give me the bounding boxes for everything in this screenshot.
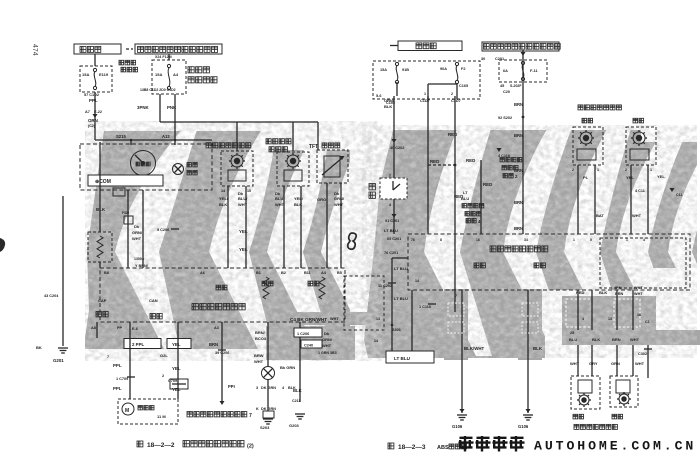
svg-text:G106: G106 xyxy=(452,424,463,429)
svg-text:C302: C302 xyxy=(638,352,647,356)
svg-text:CAN: CAN xyxy=(149,298,158,303)
svg-text:BLK: BLK xyxy=(293,388,302,393)
wire red2 xyxy=(454,96,456,312)
svg-text:S215: S215 xyxy=(116,134,126,139)
svg-text:WHT: WHT xyxy=(322,343,332,348)
svg-text:YEL: YEL xyxy=(657,174,665,179)
motor box xyxy=(118,399,178,424)
svg-text:2: 2 xyxy=(451,92,453,96)
right diagram watermark gray mass xyxy=(364,130,697,358)
EBCM sub box xyxy=(600,238,686,288)
cluster feed stubs xyxy=(130,140,132,145)
wire xyxy=(300,186,302,268)
wire to S203 xyxy=(267,380,269,411)
svg-text:BRN: BRN xyxy=(612,337,621,342)
svg-text:PPI: PPI xyxy=(228,384,235,389)
gray strip right labels xyxy=(562,330,700,345)
svg-text:B2: B2 xyxy=(281,271,286,275)
label 车轮轮速传感器 bottom xyxy=(574,424,617,429)
svg-text:8: 8 xyxy=(440,238,442,242)
diode box xyxy=(88,232,112,262)
svg-text:F-11: F-11 xyxy=(530,69,538,73)
svg-text:13: 13 xyxy=(376,317,380,321)
label 松油器连接器端子4 xyxy=(462,204,484,208)
svg-text:CAP: CAP xyxy=(98,298,107,303)
svg-text:PL: PL xyxy=(583,175,589,180)
svg-text:WHT: WHT xyxy=(275,202,285,207)
svg-text:C4 BK GRN/WHT: C4 BK GRN/WHT xyxy=(290,317,327,322)
svg-text:GRN/: GRN/ xyxy=(322,337,333,342)
svg-text:15: 15 xyxy=(247,189,251,193)
svg-text:1 GRN 3B3: 1 GRN 3B3 xyxy=(318,351,337,355)
svg-text:BLK: BLK xyxy=(294,202,302,207)
caption right xyxy=(388,443,394,449)
svg-text:DK GRN: DK GRN xyxy=(261,386,276,390)
svg-text:BRN: BRN xyxy=(514,226,523,231)
svg-text:WHT: WHT xyxy=(632,213,642,218)
svg-text:B11: B11 xyxy=(304,271,311,275)
wire ebcm left2 xyxy=(411,290,413,351)
indicator lamp xyxy=(173,164,184,175)
wheel sensor LF xyxy=(573,127,603,165)
svg-text:A7: A7 xyxy=(85,110,90,114)
svg-text:34: 34 xyxy=(524,238,528,242)
connector sq xyxy=(124,216,133,224)
svg-text:1300-r: 1300-r xyxy=(134,257,145,261)
svg-text:LT BLU: LT BLU xyxy=(394,266,408,271)
svg-text:GRO: GRO xyxy=(317,197,326,202)
ground wire left xyxy=(62,196,64,346)
svg-text:TFT: TFT xyxy=(309,144,318,150)
svg-text:BLK: BLK xyxy=(592,337,600,342)
svg-text:YEL/: YEL/ xyxy=(219,196,229,201)
svg-text:WHT: WHT xyxy=(132,236,142,241)
svg-text:Dk: Dk xyxy=(324,331,330,336)
svg-text:BLK/WHT: BLK/WHT xyxy=(464,346,485,351)
svg-text:3PNK: 3PNK xyxy=(137,105,150,110)
lamp right col xyxy=(267,322,269,366)
svg-text:WHT: WHT xyxy=(630,337,640,342)
svg-text:BRN/: BRN/ xyxy=(255,330,266,335)
run/start box right xyxy=(482,42,559,51)
svg-text:1 C709: 1 C709 xyxy=(116,377,128,381)
label 机油压力连接器端子2 xyxy=(500,158,522,162)
svg-text:4 C11: 4 C11 xyxy=(635,189,645,193)
wire xyxy=(99,262,101,268)
svg-text:RED: RED xyxy=(483,182,492,187)
white chevron cutouts left xyxy=(115,126,386,351)
wire xyxy=(159,94,161,122)
svg-text:C11: C11 xyxy=(676,193,682,197)
gray block bottom-right of left diagram xyxy=(266,326,355,360)
wire xyxy=(94,54,96,66)
watermark 汽车之家 xyxy=(459,436,525,452)
fuse 15A xyxy=(395,62,398,65)
small box below cluster xyxy=(113,188,125,196)
label 车轮转速传感器 top xyxy=(578,105,621,110)
instrument cluster box xyxy=(80,144,212,190)
left bottom strip white label PPL xyxy=(124,339,161,349)
svg-text:Bk GRN: Bk GRN xyxy=(280,365,295,370)
svg-text:1: 1 xyxy=(597,168,599,172)
wire PPL col xyxy=(129,322,131,399)
svg-text:B5: B5 xyxy=(337,271,342,275)
svg-text:C1D7: C1D7 xyxy=(451,99,461,103)
EBCM label xyxy=(490,246,548,252)
svg-text:GRY: GRY xyxy=(589,361,598,366)
svg-text:C165: C165 xyxy=(459,84,468,88)
svg-text:LT BLU: LT BLU xyxy=(394,296,408,301)
wire BRN col xyxy=(221,322,223,401)
wire xyxy=(127,190,129,268)
label 输出转速传感器 xyxy=(266,139,291,144)
ground G203 xyxy=(295,413,305,415)
caption left xyxy=(137,441,143,447)
svg-text:BK: BK xyxy=(36,345,42,350)
wire red1 xyxy=(427,96,429,234)
svg-text:LT BLU: LT BLU xyxy=(384,228,398,233)
label 变速器倒档 xyxy=(119,60,136,65)
ground G106 a xyxy=(457,414,467,416)
connector boxes col2 xyxy=(522,303,538,316)
svg-text:G201: G201 xyxy=(53,358,64,363)
wire xyxy=(245,186,247,268)
svg-text:16: 16 xyxy=(637,313,641,317)
rear sensor LB xyxy=(571,376,600,409)
svg-text:76: 76 xyxy=(411,238,415,242)
svg-text:1: 1 xyxy=(424,92,426,96)
svg-text:B1: B1 xyxy=(256,271,261,275)
wire YEL col xyxy=(177,322,179,399)
label 左前 xyxy=(582,118,593,123)
wire xyxy=(326,183,328,268)
speedometer dial xyxy=(131,151,156,176)
resistors inside ECU xyxy=(263,277,269,299)
svg-text:YEL/: YEL/ xyxy=(294,196,304,201)
svg-text:WHT: WHT xyxy=(635,361,645,366)
svg-text:C211: C211 xyxy=(292,399,300,403)
svg-text:PPL: PPL xyxy=(113,363,122,368)
svg-text:2: 2 xyxy=(389,174,391,178)
TCU ECU dashed box xyxy=(100,268,345,322)
svg-text:1 C110: 1 C110 xyxy=(419,305,431,309)
svg-text:WHT: WHT xyxy=(238,202,248,207)
label 搭铁 2 xyxy=(534,263,545,268)
svg-text:5 C206: 5 C206 xyxy=(157,228,169,232)
svg-text:G2L: G2L xyxy=(160,353,168,358)
svg-text:RED: RED xyxy=(466,158,475,163)
fuse 90A xyxy=(455,62,458,65)
svg-text:C2: C2 xyxy=(645,320,649,324)
svg-text:25: 25 xyxy=(570,331,574,335)
fuse block box right xyxy=(373,61,480,99)
svg-text:A6: A6 xyxy=(200,271,205,275)
bus wire y140 xyxy=(95,139,212,141)
svg-text:BRN: BRN xyxy=(514,200,523,205)
svg-text:YEL: YEL xyxy=(626,175,634,180)
bus wire y122 xyxy=(160,121,318,123)
svg-text:5: 5 xyxy=(590,238,592,242)
ground G106 b xyxy=(523,414,533,416)
svg-text:5-6: 5-6 xyxy=(376,94,382,98)
wire lf2 xyxy=(594,165,596,234)
battery box 电源 xyxy=(390,45,398,47)
svg-text:3: 3 xyxy=(256,386,258,390)
svg-text:ORN: ORN xyxy=(88,118,98,123)
left diagram watermark gray mass xyxy=(85,131,350,349)
svg-text:K: K xyxy=(256,407,259,411)
wire through switch xyxy=(393,96,395,178)
resistor box small xyxy=(170,379,188,389)
svg-text:1: 1 xyxy=(650,168,652,172)
fuse box E119 xyxy=(80,66,112,92)
svg-text:G203: G203 xyxy=(289,423,300,428)
gray block right sensors xyxy=(562,296,656,330)
label 变速器电控单元 xyxy=(192,304,245,310)
svg-text:S301: S301 xyxy=(392,328,401,332)
svg-text:WHT: WHT xyxy=(254,359,264,364)
svg-text:BLK: BLK xyxy=(96,207,106,212)
svg-text:GRN: GRN xyxy=(611,361,620,366)
svg-text:14: 14 xyxy=(415,279,419,283)
svg-text:1: 1 xyxy=(573,238,575,242)
label 右后 xyxy=(612,414,623,419)
svg-text:1 C206: 1 C206 xyxy=(297,332,309,336)
svg-text:PNK: PNK xyxy=(167,105,177,110)
output speed sensor xyxy=(277,152,309,186)
svg-text:LT BLU: LT BLU xyxy=(394,356,411,361)
wire fuse A4 feed xyxy=(168,54,170,60)
fuse F-11 box xyxy=(499,60,547,82)
svg-text:Y BRN/: Y BRN/ xyxy=(135,264,149,268)
svg-text:F322: F322 xyxy=(122,211,129,215)
svg-text:YEL: YEL xyxy=(172,366,181,371)
label 输入转速传感器 xyxy=(206,143,251,148)
svg-text:E-22: E-22 xyxy=(94,110,102,114)
wheel sensor RF xyxy=(626,127,656,165)
svg-text:30: 30 xyxy=(481,57,485,61)
gray strip C4 left xyxy=(287,312,380,325)
svg-text:11 C202: 11 C202 xyxy=(378,284,392,288)
svg-text:IPN: IPN xyxy=(615,286,622,290)
right col2 wire xyxy=(299,322,301,402)
label 左后 xyxy=(573,414,584,419)
信号 labels xyxy=(216,285,227,290)
wire rf2 xyxy=(647,165,649,234)
wire rf1 xyxy=(630,165,632,234)
wire BLK from S215 xyxy=(99,142,101,232)
svg-text:PPL: PPL xyxy=(89,98,98,103)
svg-text:15A: 15A xyxy=(82,72,89,77)
svg-text:40 C202: 40 C202 xyxy=(390,146,404,150)
label 仪表板编号线盒 xyxy=(188,67,209,73)
svg-text:A12: A12 xyxy=(162,134,170,139)
wire ebcm left xyxy=(392,257,408,259)
svg-text:18—2—3: 18—2—3 xyxy=(398,444,426,451)
svg-text:BCO3: BCO3 xyxy=(255,336,267,341)
margin mark near right diagram xyxy=(348,233,356,249)
wire A8 col xyxy=(96,322,98,338)
svg-text:18—2—2: 18—2—2 xyxy=(147,442,175,449)
wires EBCM to connector block xyxy=(577,290,579,330)
svg-text:YEL: YEL xyxy=(172,387,181,392)
strip white label YEL xyxy=(167,339,191,349)
svg-text:G106: G106 xyxy=(518,424,529,429)
svg-text:E119: E119 xyxy=(99,72,109,77)
wire xyxy=(174,94,176,140)
fuse box A4 xyxy=(152,60,186,94)
svg-text:90A: 90A xyxy=(440,67,447,71)
wire lf1 xyxy=(577,165,579,234)
scan mottling over masses xyxy=(85,121,697,361)
run/start fuse box label xyxy=(135,44,222,54)
svg-text:474: 474 xyxy=(31,44,38,56)
svg-text:C240: C240 xyxy=(304,344,313,348)
svg-text:(C2): (C2) xyxy=(88,124,96,128)
svg-text:BAT: BAT xyxy=(596,213,604,218)
svg-text:S-202F: S-202F xyxy=(510,84,522,88)
wire xyxy=(94,92,96,140)
svg-text:57 C1D2: 57 C1D2 xyxy=(84,93,99,97)
svg-text:BLK: BLK xyxy=(599,290,607,295)
svg-text:X24 F12M: X24 F12M xyxy=(155,55,172,59)
svg-text:7: 7 xyxy=(455,294,457,298)
EBCM box xyxy=(408,234,690,290)
svg-text:LT: LT xyxy=(463,190,468,195)
label 至插头端子7 xyxy=(187,412,247,417)
gray connector columns below EBCM xyxy=(444,289,468,360)
svg-text:A3: A3 xyxy=(214,326,219,330)
dashed connector box right of left ECU xyxy=(344,276,384,330)
svg-text:BLU/: BLU/ xyxy=(238,196,248,201)
svg-text:Dk: Dk xyxy=(134,224,140,229)
svg-text:RED: RED xyxy=(430,159,439,164)
connector boxes col1 xyxy=(448,303,464,316)
right sensor connector boxes xyxy=(566,299,592,327)
input speed sensor xyxy=(221,151,253,186)
label 档位指示 xyxy=(187,163,197,167)
svg-text:BLU: BLU xyxy=(461,196,469,201)
svg-text:BRN: BRN xyxy=(514,133,523,138)
svg-text:2: 2 xyxy=(572,168,574,172)
svg-text:91 C201: 91 C201 xyxy=(385,219,399,223)
wire G106 a xyxy=(461,290,463,413)
svg-text:7: 7 xyxy=(107,355,109,359)
svg-text:GRN/: GRN/ xyxy=(334,196,345,201)
svg-text:4: 4 xyxy=(643,238,645,242)
svg-text:2: 2 xyxy=(625,168,627,172)
rear sensor RB xyxy=(610,376,638,407)
TFT sensor thermistor xyxy=(317,150,348,183)
horizontal red jog xyxy=(428,164,455,166)
wire xyxy=(340,183,342,268)
svg-text:YEL: YEL xyxy=(239,247,248,252)
label 搭铁 1 xyxy=(474,263,485,268)
svg-text:E-6: E-6 xyxy=(132,327,138,331)
wire BRN main xyxy=(522,50,524,234)
brake switch box xyxy=(369,184,375,190)
svg-text:2 PPL: 2 PPL xyxy=(132,342,145,347)
wire G106 b xyxy=(527,290,529,413)
svg-text:14: 14 xyxy=(374,339,378,343)
wire red3 xyxy=(480,160,482,234)
svg-text:PPL: PPL xyxy=(113,386,122,391)
left margin ink blob xyxy=(0,238,5,252)
svg-text:PP: PP xyxy=(117,326,123,330)
svg-text:DK GRN: DK GRN xyxy=(261,407,276,411)
svg-text:B8: B8 xyxy=(104,271,109,275)
svg-text:BLK: BLK xyxy=(219,202,227,207)
svg-text:WHT: WHT xyxy=(330,317,339,321)
svg-text:45: 45 xyxy=(500,84,504,88)
svg-text:13B8 C1D2 2D0 C1D2: 13B8 C1D2 2D0 C1D2 xyxy=(140,88,176,92)
svg-text:S203: S203 xyxy=(260,425,270,430)
power box 常电源 xyxy=(74,44,121,54)
svg-text:WHT: WHT xyxy=(634,292,643,296)
svg-text:GRN/: GRN/ xyxy=(132,230,143,235)
svg-text:A8: A8 xyxy=(91,326,96,330)
svg-text:4: 4 xyxy=(582,317,584,321)
svg-text:AUTOHOME.COM.CN: AUTOHOME.COM.CN xyxy=(534,439,696,454)
svg-text:BRW: BRW xyxy=(254,353,264,358)
svg-text:65 C201: 65 C201 xyxy=(387,237,401,241)
LT BLU white box xyxy=(386,351,434,363)
svg-text:91B: 91B xyxy=(402,68,409,72)
svg-text:11 M: 11 M xyxy=(157,414,166,419)
svg-text:76 C201: 76 C201 xyxy=(384,251,398,255)
svg-text:M: M xyxy=(125,408,129,414)
wire xyxy=(142,190,144,268)
svg-text:4: 4 xyxy=(389,203,391,207)
white box C240 xyxy=(301,340,322,348)
svg-text:BRN: BRN xyxy=(514,168,523,173)
white box C206 xyxy=(294,328,322,337)
svg-text:1: 1 xyxy=(626,238,628,242)
svg-text:15A: 15A xyxy=(380,68,387,72)
svg-text:(2): (2) xyxy=(247,444,254,450)
svg-text:C709: C709 xyxy=(168,379,177,383)
ground S203 xyxy=(263,418,273,420)
svg-text:BRN: BRN xyxy=(514,102,523,107)
svg-text:14: 14 xyxy=(221,189,225,193)
svg-text:6A: 6A xyxy=(503,69,508,73)
svg-text:ABS: ABS xyxy=(437,445,449,451)
svg-text:13: 13 xyxy=(608,317,612,321)
wire xyxy=(227,186,229,268)
svg-text:BLU: BLU xyxy=(569,337,577,342)
svg-text:7: 7 xyxy=(249,413,252,419)
svg-text:F2: F2 xyxy=(461,67,465,71)
svg-text:⊕COM: ⊕COM xyxy=(95,179,111,185)
svg-text:BLU/: BLU/ xyxy=(275,196,285,201)
svg-text:18: 18 xyxy=(476,238,480,242)
svg-text:ORN/: ORN/ xyxy=(384,98,395,103)
wire xyxy=(283,186,285,268)
svg-text:39 C206: 39 C206 xyxy=(215,351,229,355)
svg-text:RED: RED xyxy=(448,132,457,137)
svg-text:WHT: WHT xyxy=(634,286,643,290)
svg-text:BLK: BLK xyxy=(533,346,543,351)
sensor feed wires xyxy=(236,122,238,151)
wire dash between boxes xyxy=(126,48,133,50)
ground G201 xyxy=(58,347,68,349)
svg-text:RED: RED xyxy=(576,290,585,295)
svg-text:WHT: WHT xyxy=(334,202,344,207)
COM box xyxy=(88,175,163,186)
svg-text:43 C204: 43 C204 xyxy=(44,294,59,298)
svg-text:BLK: BLK xyxy=(384,104,392,109)
label 右前 xyxy=(633,118,644,123)
